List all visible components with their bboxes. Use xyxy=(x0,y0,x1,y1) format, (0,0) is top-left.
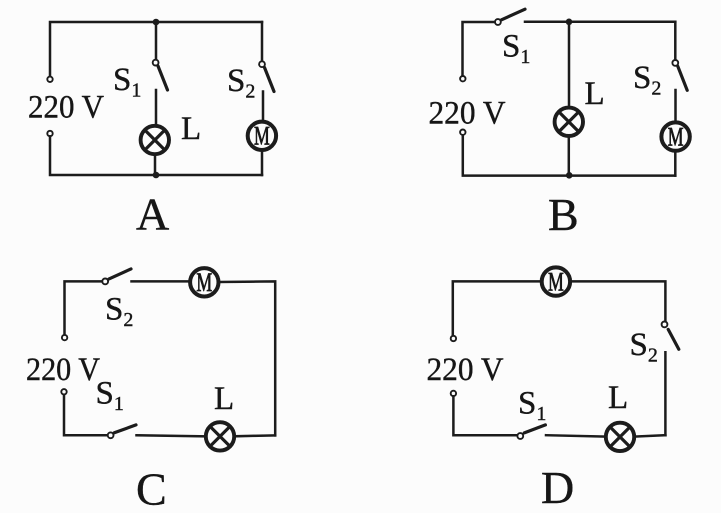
lamp L (B) xyxy=(555,108,583,136)
switch S2 (A) xyxy=(259,61,274,91)
lamp L (C) xyxy=(206,422,234,450)
switch S1 (A) xyxy=(153,60,168,90)
svg-text:D: D xyxy=(541,462,574,513)
wire A left lower xyxy=(50,136,262,175)
svg-text:S1: S1 xyxy=(518,386,546,426)
switch S1 (D) xyxy=(517,425,545,439)
svg-text:220 V: 220 V xyxy=(427,352,504,388)
wire D left lower xyxy=(453,396,517,435)
motor M (C) xyxy=(190,268,218,297)
source C 220V upper terminal xyxy=(62,335,67,340)
lamp L (D) xyxy=(606,423,634,451)
svg-text:L: L xyxy=(608,380,628,416)
wire D top right xyxy=(571,281,666,321)
node B bottom junction xyxy=(566,172,573,179)
lamp L (A) xyxy=(141,126,169,154)
node B top junction xyxy=(566,19,573,26)
wire C left lower xyxy=(64,395,108,436)
source C 220V lower terminal xyxy=(61,389,66,394)
wire B left lower xyxy=(463,135,676,175)
svg-text:220 V: 220 V xyxy=(429,95,506,131)
wire D bottom mid xyxy=(546,435,606,436)
svg-text:M: M xyxy=(254,122,270,151)
svg-text:B: B xyxy=(548,189,579,240)
wire B middle lower xyxy=(568,137,571,175)
node A bottom junction xyxy=(153,172,160,179)
wire C top mid xyxy=(132,280,191,283)
svg-text:S2: S2 xyxy=(630,327,658,367)
source B 220V lower terminal xyxy=(460,130,465,135)
svg-text:A: A xyxy=(136,189,169,240)
svg-text:L: L xyxy=(181,111,201,147)
wire C bottom mid xyxy=(137,435,207,436)
svg-text:L: L xyxy=(214,381,234,417)
wire B top left xyxy=(463,22,496,76)
wire B right mid xyxy=(674,90,677,121)
wire D right lower xyxy=(664,352,667,435)
wire A middle mid xyxy=(155,90,158,125)
source D 220V lower terminal xyxy=(451,391,456,396)
wire A middle lower xyxy=(154,156,157,175)
motor M (B) xyxy=(661,122,689,151)
svg-text:S1: S1 xyxy=(502,29,530,69)
wire D bottom right xyxy=(634,435,665,436)
wire B right lower xyxy=(674,153,677,176)
svg-text:L: L xyxy=(585,76,605,112)
svg-text:S2: S2 xyxy=(633,60,661,100)
svg-text:S2: S2 xyxy=(227,63,255,103)
svg-text:M: M xyxy=(668,122,684,151)
switch S2 (B) xyxy=(672,60,687,90)
node A top junction xyxy=(153,19,160,26)
wire B middle branch upper xyxy=(568,22,571,107)
source A 220V upper terminal xyxy=(47,77,52,82)
wire A right mid xyxy=(262,92,265,121)
source D 220V upper terminal xyxy=(451,336,456,341)
switch S1 (C) xyxy=(108,425,136,438)
wire D top left xyxy=(453,281,541,335)
wire B top right xyxy=(525,21,675,24)
switch S1 (B) xyxy=(495,9,525,25)
svg-text:C: C xyxy=(136,464,167,513)
svg-text:S1: S1 xyxy=(113,62,141,102)
wire A right branch upper xyxy=(261,22,264,61)
source A 220V lower terminal xyxy=(47,131,52,136)
motor M (A) xyxy=(248,122,276,151)
wire B right branch upper xyxy=(674,22,677,60)
svg-text:S2: S2 xyxy=(105,292,133,332)
svg-text:220 V: 220 V xyxy=(28,90,104,126)
wire A right lower xyxy=(261,152,264,175)
switch S2 (C) xyxy=(102,269,131,284)
switch S2 (D) xyxy=(662,322,679,350)
wire C top right + right side xyxy=(219,281,276,435)
wire C bottom right xyxy=(234,434,275,437)
wire C top left xyxy=(65,281,103,334)
wire A middle branch upper xyxy=(155,22,158,60)
svg-text:M: M xyxy=(196,268,212,297)
svg-text:M: M xyxy=(548,267,564,296)
svg-text:S1: S1 xyxy=(96,376,124,416)
motor M (D) xyxy=(542,267,570,296)
source B 220V upper terminal xyxy=(460,76,465,81)
svg-text:220 V: 220 V xyxy=(26,352,100,388)
wire A top xyxy=(50,22,262,76)
